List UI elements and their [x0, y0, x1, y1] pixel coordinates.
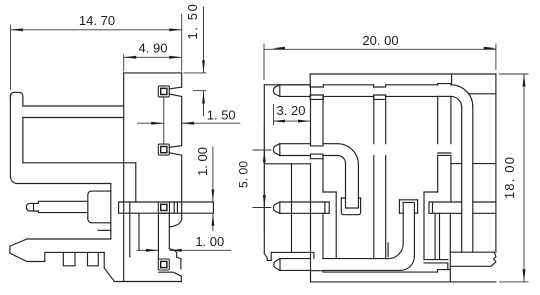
svg-text:18. 00: 18. 00 [502, 156, 517, 199]
svg-text:20. 00: 20. 00 [362, 33, 398, 48]
svg-text:1. 00: 1. 00 [195, 234, 224, 249]
svg-text:1. 50: 1. 50 [185, 3, 200, 40]
svg-text:1. 00: 1. 00 [195, 147, 210, 176]
svg-text:1. 50: 1. 50 [207, 108, 236, 123]
svg-text:4. 90: 4. 90 [139, 40, 168, 55]
svg-text:5. 00: 5. 00 [237, 161, 251, 188]
svg-text:3. 20: 3. 20 [277, 103, 306, 118]
svg-text:14. 70: 14. 70 [79, 13, 115, 28]
